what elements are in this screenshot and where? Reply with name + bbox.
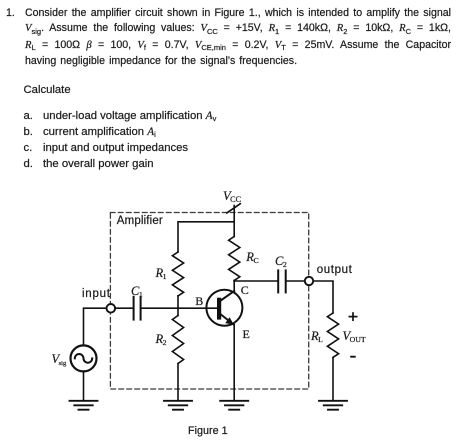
label input [82,288,111,300]
paragraph line 2 [25,22,451,35]
label Amplifier [117,215,163,227]
emitter arrowhead [225,317,234,325]
list item d [24,158,33,170]
transistor Q1 circle [206,290,242,326]
label RL [311,330,323,342]
resistor Rc [229,237,240,281]
wire C1 to base [142,307,217,309]
transistor collector stroke [221,291,234,301]
label Vsig [52,353,67,365]
wire emitter down to ground [233,325,235,401]
wire Vcc rail to R1 [178,222,234,252]
label output [317,264,353,276]
list item a [24,110,33,122]
transistor emitter stroke [220,314,234,325]
wire Vsig to input node [84,308,107,345]
capacitor C2 [278,270,286,292]
figure caption [188,425,228,437]
wire Vsig to ground [83,371,85,400]
list item b [24,126,33,138]
wire collector node to C2 [234,280,277,282]
label B [195,295,203,307]
label E [243,328,250,340]
ground below RL [319,401,347,410]
wire Vcc to Rc [233,206,235,237]
paragraph line 1 [6,7,15,19]
paragraph line 4 [25,55,297,67]
wire base node to R2 [177,308,179,315]
ground below Vsig [70,401,98,410]
wire C2 to output node [287,280,305,282]
wire Rc to collector node [233,279,235,282]
ground below R2 [164,401,192,410]
input node [107,304,116,313]
Calculate heading [24,84,71,96]
source Vsig [71,345,97,371]
wire R1 to base node [177,296,179,308]
capacitor C1 [134,297,141,320]
sine wave inside Vsig [75,354,92,363]
minus sign [350,356,356,358]
resistor R2 [172,316,183,364]
label R2 [156,333,167,345]
transistor base bar [217,298,221,320]
wire RL to ground [332,357,334,400]
wire input node to C1 [115,307,133,309]
label R1 [156,267,167,279]
wire output node to RL [313,281,333,313]
paragraph line 3 [25,39,451,52]
label C [241,284,249,296]
wire R2 to ground [177,364,179,401]
ground below emitter [220,401,248,410]
resistor R1 [172,252,183,296]
list item c [24,142,33,154]
resistor RL [327,313,338,357]
label C2 [275,255,287,267]
output node [305,277,313,285]
amplifier dashed box [110,213,308,390]
label Rc [246,251,258,263]
Vcc supply tick [227,204,240,213]
label C1 [131,285,143,297]
plus sign [349,312,358,321]
label Vout [343,330,366,342]
label Vcc [223,190,241,202]
wire collector up [233,281,235,291]
